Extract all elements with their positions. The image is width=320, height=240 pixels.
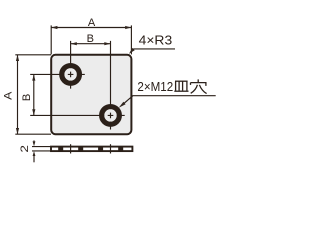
center line hole 2 vertical bbox=[110, 41, 112, 130]
countersink wall marks bbox=[58, 147, 123, 150]
plate front view bbox=[51, 55, 131, 134]
dimension B left bbox=[32, 74, 35, 115]
dimension B top bbox=[71, 42, 111, 45]
svg-text:4×R3: 4×R3 bbox=[139, 34, 173, 48]
center line hole 1 vertical bbox=[70, 41, 72, 89]
svg-text:B: B bbox=[87, 33, 94, 45]
svg-text:A: A bbox=[3, 91, 15, 100]
svg-text:B: B bbox=[21, 94, 33, 102]
countersunk hole 2 bbox=[102, 107, 120, 125]
center line hole 2 horizontal bbox=[30, 114, 125, 116]
kanji sara (dish) bbox=[174, 81, 188, 91]
svg-text:2×M12: 2×M12 bbox=[137, 80, 173, 94]
leader 4xR3 bbox=[129, 48, 175, 54]
thickness dimension 2 bbox=[32, 140, 50, 162]
svg-text:A: A bbox=[88, 17, 96, 29]
dimension A left bbox=[15, 55, 51, 134]
leader 2xM12 countersink bbox=[119, 96, 216, 108]
dimension A top bbox=[51, 25, 131, 54]
svg-text:2: 2 bbox=[19, 145, 31, 153]
side view plate bbox=[51, 147, 132, 152]
side view hole center ticks bbox=[71, 144, 111, 153]
center line hole 1 horizontal bbox=[30, 73, 85, 75]
kanji ana (hole) bbox=[191, 79, 207, 93]
countersunk hole 1 bbox=[62, 66, 80, 84]
